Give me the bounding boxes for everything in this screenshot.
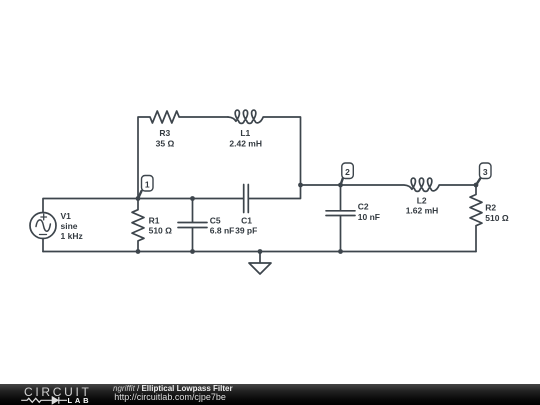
svg-text:2: 2	[345, 167, 350, 177]
svg-text:6.8 nF: 6.8 nF	[210, 226, 235, 236]
svg-text:1 kHz: 1 kHz	[61, 231, 83, 241]
svg-text:3: 3	[483, 167, 488, 177]
svg-text:39 pF: 39 pF	[235, 226, 257, 236]
svg-text:510 Ω: 510 Ω	[485, 213, 509, 223]
svg-text:1.62 mH: 1.62 mH	[406, 206, 439, 216]
svg-text:510 Ω: 510 Ω	[149, 226, 173, 236]
svg-text:R2: R2	[485, 203, 496, 213]
svg-text:V1: V1	[61, 211, 72, 221]
svg-text:R1: R1	[149, 216, 160, 226]
svg-text:C1: C1	[241, 216, 252, 226]
svg-text:2.42 mH: 2.42 mH	[229, 139, 262, 149]
svg-text:10 nF: 10 nF	[358, 212, 380, 222]
svg-text:L2: L2	[417, 196, 427, 206]
svg-text:C5: C5	[210, 216, 221, 226]
svg-text:sine: sine	[61, 221, 78, 231]
svg-text:R3: R3	[159, 128, 170, 138]
svg-text:1: 1	[145, 179, 150, 189]
svg-text:L1: L1	[240, 128, 250, 138]
svg-text:35 Ω: 35 Ω	[156, 139, 175, 149]
svg-text:C2: C2	[358, 202, 369, 212]
